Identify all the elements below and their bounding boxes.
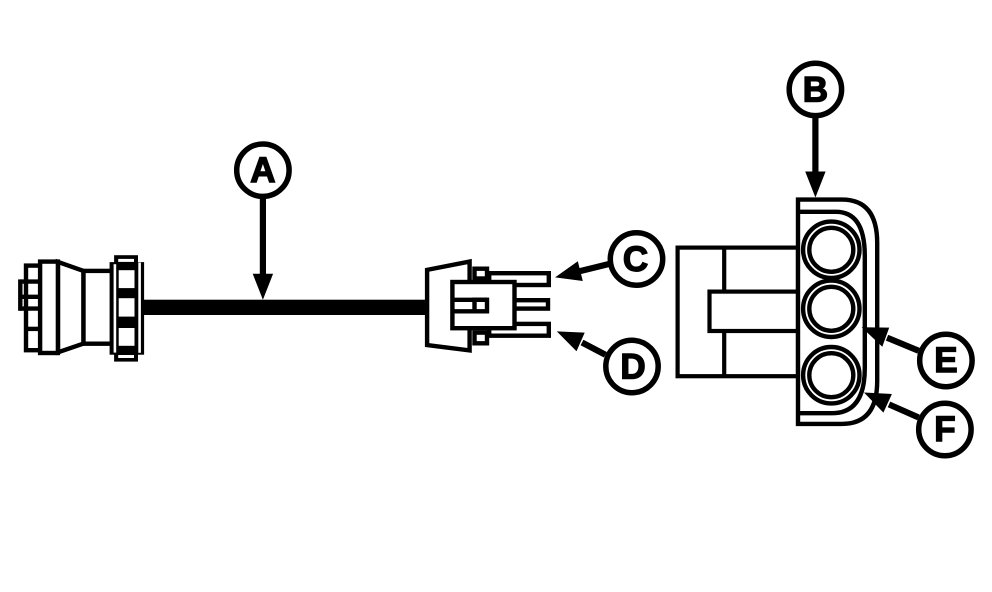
callout F circle: [919, 403, 971, 455]
svg-text:D: D: [620, 348, 645, 387]
left connector backshell mid step: [26, 266, 49, 351]
callout F arrow: [864, 393, 919, 418]
callout C arrow: [555, 261, 610, 281]
left connector taper: [58, 262, 84, 352]
right connector port circle top: [803, 222, 859, 278]
svg-text:E: E: [934, 341, 957, 380]
right connector tab: [710, 292, 799, 331]
callout C circle: [610, 233, 662, 285]
svg-text:C: C: [623, 240, 648, 279]
left connector coupling nut: [110, 255, 145, 361]
right connector D-shaped cap outer: [798, 200, 877, 424]
left connector backshell small step: [20, 279, 42, 329]
cable connector terminal C (top pin): [489, 273, 549, 285]
callout E circle: [920, 334, 972, 386]
callout A circle: [237, 144, 289, 196]
cable: [140, 300, 427, 315]
cable connector bottom latch: [475, 333, 488, 344]
cable connector terminal middle pin: [512, 300, 548, 308]
callout D arrow: [557, 331, 606, 354]
left connector flange: [40, 262, 58, 353]
cable connector terminal D (bottom pin): [489, 324, 549, 336]
cable connector trapezoid body: [427, 262, 470, 351]
right connector port holes white fill: [801, 220, 861, 406]
callout B circle: [789, 63, 841, 115]
cable connector key square: [475, 300, 488, 312]
left connector barrel: [84, 271, 114, 344]
cable connector middle cavity rails: [452, 300, 487, 312]
right connector port circle bottom: [803, 347, 859, 403]
callout B arrow: [805, 117, 825, 198]
callout D circle: [606, 340, 658, 392]
svg-text:A: A: [250, 151, 275, 190]
svg-text:F: F: [934, 410, 955, 449]
right connector D-shaped cap inner contour: [798, 212, 865, 413]
right connector body divider: [722, 248, 726, 377]
cable connector housing: [452, 282, 514, 328]
right connector port circle middle: [803, 281, 859, 337]
cable connector top latch: [475, 269, 488, 279]
callout A arrow: [253, 199, 273, 300]
callout E arrow: [862, 327, 919, 350]
right connector body: [678, 248, 798, 377]
svg-text:B: B: [803, 70, 828, 109]
